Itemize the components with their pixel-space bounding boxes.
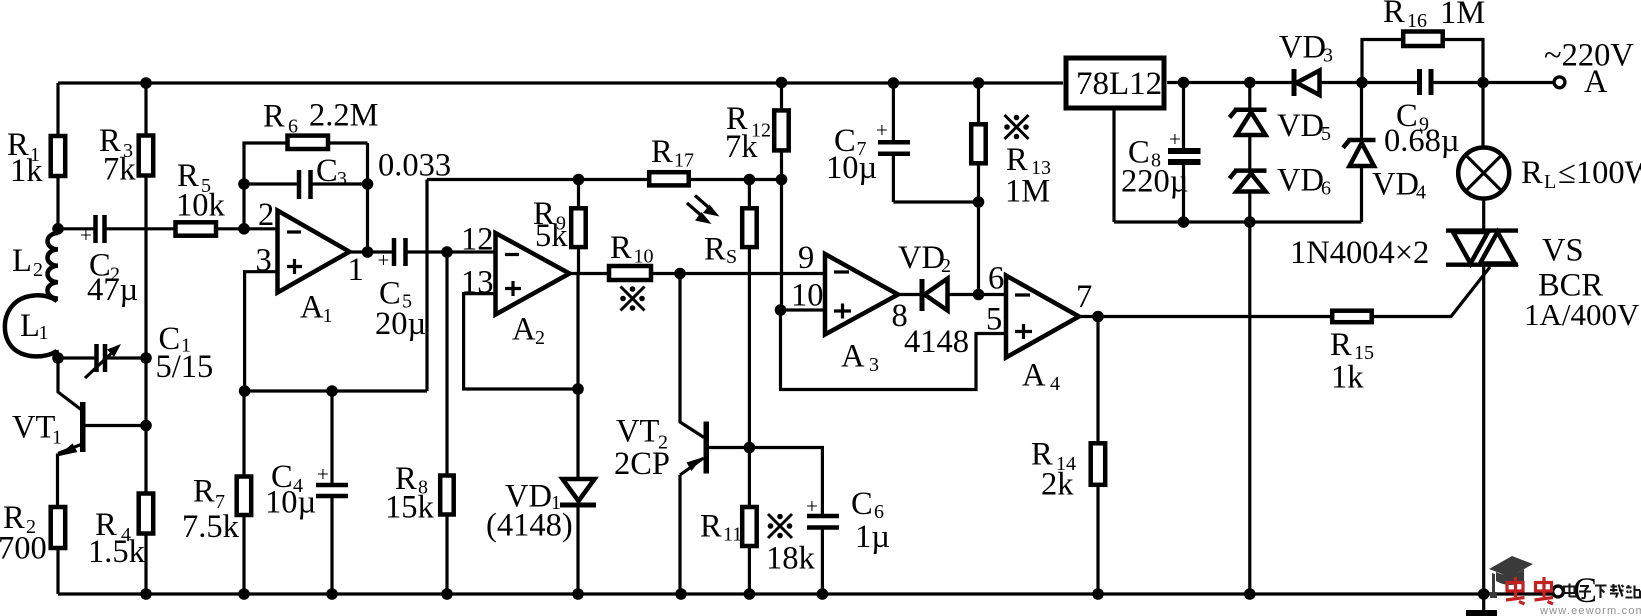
svg-text:+: + xyxy=(1169,127,1181,151)
svg-text:13: 13 xyxy=(461,265,494,301)
op-amp A1 xyxy=(278,211,350,293)
svg-text:R: R xyxy=(1521,155,1543,191)
op-amp A2 xyxy=(496,233,570,315)
svg-text:1k: 1k xyxy=(1331,360,1364,396)
resistor R7 xyxy=(242,391,245,594)
svg-text:L: L xyxy=(20,308,40,344)
svg-text:2: 2 xyxy=(258,197,274,233)
wire 78L12 ground rail xyxy=(1114,108,1362,222)
wire R3 column xyxy=(144,83,147,492)
svg-text:+: + xyxy=(80,223,92,247)
wire A1 feedback xyxy=(244,143,368,252)
capacitor C2 xyxy=(58,227,174,230)
svg-text:R: R xyxy=(263,99,285,135)
wire A4 output to gate xyxy=(1079,267,1490,317)
diode VD5 xyxy=(1248,83,1251,110)
diode VD1 xyxy=(576,389,579,594)
svg-text:220µ: 220µ xyxy=(1121,164,1188,200)
svg-text:0.68µ: 0.68µ xyxy=(1384,123,1460,159)
svg-text:2: 2 xyxy=(535,327,545,349)
svg-text:7k: 7k xyxy=(725,129,758,165)
resistor R16 xyxy=(1362,40,1483,83)
svg-text:1: 1 xyxy=(348,252,364,288)
svg-text:R: R xyxy=(651,134,673,170)
svg-text:0.033: 0.033 xyxy=(378,148,451,184)
resistor R6 xyxy=(288,136,329,149)
svg-text:4: 4 xyxy=(1416,182,1426,204)
watermark site name (dian zi xia zai zhan, drawn) xyxy=(1564,584,1640,599)
watermark red characters (chong chong, drawn) xyxy=(1506,577,1553,604)
svg-text:20µ: 20µ xyxy=(375,306,426,342)
capacitor C8 xyxy=(1182,83,1185,223)
resistor R17 xyxy=(649,172,689,185)
svg-text:12: 12 xyxy=(461,222,494,258)
svg-text:10k: 10k xyxy=(176,188,226,224)
svg-text:R: R xyxy=(1383,0,1405,30)
svg-text:10µ: 10µ xyxy=(265,485,316,521)
resistor R9 xyxy=(577,180,580,274)
svg-text:VD: VD xyxy=(1372,167,1419,203)
svg-text:+: + xyxy=(876,118,888,142)
svg-text:7.5k: 7.5k xyxy=(182,509,240,545)
diode VD6 xyxy=(1248,135,1251,171)
svg-text:10: 10 xyxy=(791,278,824,314)
diode VD4 xyxy=(1360,83,1363,223)
svg-text:78L12: 78L12 xyxy=(1076,66,1162,102)
svg-text:1M: 1M xyxy=(1440,0,1485,31)
op-amp A4 xyxy=(1006,276,1079,358)
microphone L1 xyxy=(5,295,57,356)
svg-text:(4148): (4148) xyxy=(486,508,573,544)
wire bottom ground rail xyxy=(58,592,1553,595)
svg-text:1A/400V: 1A/400V xyxy=(1524,297,1640,332)
svg-text:7k: 7k xyxy=(103,152,136,188)
svg-text:1: 1 xyxy=(39,322,49,344)
wire A4 pin5 feedback xyxy=(781,310,1007,390)
svg-text:A: A xyxy=(1022,358,1046,394)
svg-text:6: 6 xyxy=(1321,178,1331,200)
svg-text:5k: 5k xyxy=(535,218,568,254)
svg-text:1k: 1k xyxy=(10,153,43,189)
resistor R2 xyxy=(51,507,65,548)
wire bias rail and riser xyxy=(245,180,782,392)
svg-text:A: A xyxy=(512,312,536,348)
resistor R15 xyxy=(1332,311,1372,323)
watermark graduation cap icon xyxy=(1489,556,1533,598)
svg-text:L: L xyxy=(12,243,32,279)
resistor R1 xyxy=(51,136,65,176)
svg-text:18k: 18k xyxy=(766,541,816,577)
svg-text:15k: 15k xyxy=(385,490,435,526)
svg-text:47µ: 47µ xyxy=(87,272,138,308)
capacitor C1 trimmer xyxy=(97,344,106,372)
resistor R12 xyxy=(780,83,783,311)
resistor R10 xyxy=(609,266,651,280)
light arrows xyxy=(695,196,711,210)
svg-text:1: 1 xyxy=(323,305,333,327)
svg-text:11: 11 xyxy=(723,524,742,546)
svg-text:VD: VD xyxy=(898,240,945,276)
resistor R8 xyxy=(440,476,454,515)
svg-text:A: A xyxy=(1584,64,1608,100)
svg-text:1.5k: 1.5k xyxy=(88,534,146,570)
resistor R4 xyxy=(139,494,154,534)
svg-text:R: R xyxy=(610,230,632,266)
triac VS xyxy=(1446,231,1518,265)
svg-text:1M: 1M xyxy=(1005,174,1050,210)
svg-text:+: + xyxy=(806,494,818,518)
svg-text:7: 7 xyxy=(1076,279,1092,315)
svg-text:10µ: 10µ xyxy=(826,150,877,186)
inductor L2 xyxy=(48,233,59,299)
wire R8 column xyxy=(445,252,448,594)
svg-text:L: L xyxy=(1544,171,1556,193)
svg-text:VD: VD xyxy=(1277,108,1324,144)
capacitor C4 xyxy=(330,391,333,594)
svg-text:C: C xyxy=(851,486,873,522)
svg-text:5: 5 xyxy=(1321,123,1331,145)
svg-text:3: 3 xyxy=(1323,45,1333,67)
svg-text:5/15: 5/15 xyxy=(156,349,214,385)
resistor R11 xyxy=(748,448,751,595)
IC 78L12 xyxy=(1066,58,1164,108)
svg-text:C: C xyxy=(316,153,338,189)
capacitor C7 xyxy=(893,83,978,202)
resistor R3 xyxy=(139,136,154,176)
svg-text:≤100W: ≤100W xyxy=(1558,155,1641,191)
svg-text:3: 3 xyxy=(256,243,272,279)
wire A2 pin13 feedback xyxy=(464,274,578,390)
svg-text:+: + xyxy=(378,248,390,272)
svg-text:2k: 2k xyxy=(1041,467,1074,503)
diode VD2 xyxy=(920,279,925,311)
terminal A xyxy=(1554,77,1565,88)
resistor R5 xyxy=(176,222,217,235)
svg-text:17: 17 xyxy=(674,150,694,172)
reference mark R10 xyxy=(620,286,645,311)
wire A3 output xyxy=(898,293,1006,296)
svg-text:10: 10 xyxy=(634,246,654,268)
wire C1 line xyxy=(58,356,146,359)
svg-text:3: 3 xyxy=(869,354,879,376)
capacitor C6 xyxy=(749,448,822,595)
reference mark R13 xyxy=(1004,115,1029,140)
transistor VT1 xyxy=(58,358,81,410)
svg-text:6: 6 xyxy=(288,116,298,138)
resistor R14 xyxy=(1096,317,1099,595)
svg-text:9: 9 xyxy=(798,240,814,276)
wire A1 pin3 bias xyxy=(245,272,278,391)
svg-text:16: 16 xyxy=(1407,10,1427,32)
wire top supply rail xyxy=(58,81,1554,85)
svg-text:VD: VD xyxy=(1277,163,1324,199)
svg-text:VT: VT xyxy=(12,410,55,446)
reference mark R11 xyxy=(768,514,793,539)
op-amp A3 xyxy=(825,254,898,335)
terminal B stub xyxy=(1482,594,1485,611)
svg-text:1N4004×2: 1N4004×2 xyxy=(1290,235,1429,271)
transistor VT2 xyxy=(680,274,704,438)
resistor R13 xyxy=(977,83,980,295)
svg-text:A: A xyxy=(841,339,865,375)
svg-text:5: 5 xyxy=(986,302,1002,338)
svg-text:VT: VT xyxy=(616,414,659,450)
svg-text:S: S xyxy=(726,246,737,268)
wire A3 pin10 xyxy=(782,308,826,311)
svg-text:1µ: 1µ xyxy=(855,519,890,555)
svg-text:VS: VS xyxy=(1542,233,1584,269)
svg-text:R: R xyxy=(700,509,722,545)
svg-text:6: 6 xyxy=(988,261,1004,297)
lamp RL xyxy=(1481,83,1485,231)
svg-text:2.2M: 2.2M xyxy=(309,98,379,134)
svg-text:1: 1 xyxy=(52,427,62,449)
svg-text:700: 700 xyxy=(0,531,47,567)
wire A2 output xyxy=(570,272,826,275)
svg-text:R: R xyxy=(1330,327,1352,363)
diode VD3 xyxy=(1292,69,1297,96)
svg-text:2CP: 2CP xyxy=(614,446,670,482)
svg-text:2: 2 xyxy=(941,255,951,277)
wire A1 output / capacitor C5 xyxy=(350,250,496,253)
svg-text:A: A xyxy=(300,290,324,326)
svg-text:VD: VD xyxy=(1279,30,1326,66)
svg-text:2: 2 xyxy=(33,259,43,281)
capacitor C9 xyxy=(1420,69,1432,95)
svg-text:4: 4 xyxy=(1050,373,1060,395)
svg-text:www.eeworm.com: www.eeworm.com xyxy=(1539,605,1641,616)
svg-text:4148: 4148 xyxy=(904,324,969,360)
svg-text:R: R xyxy=(193,474,215,510)
wire left column xyxy=(56,83,59,229)
svg-text:3: 3 xyxy=(337,168,347,190)
svg-text:+: + xyxy=(317,462,329,486)
capacitor C3 xyxy=(244,182,368,185)
svg-text:R: R xyxy=(704,232,726,268)
photoresistor RS xyxy=(748,180,751,448)
